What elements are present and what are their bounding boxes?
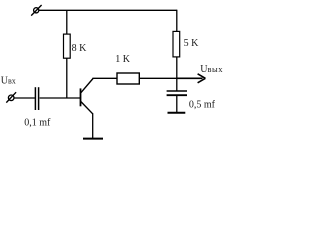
- svg-text:Uвх: Uвх: [1, 76, 16, 87]
- transistor Q1: [81, 79, 94, 114]
- wire: input terminal to C1: [14, 97, 35, 99]
- wire: C1 to base: [40, 97, 80, 99]
- wire: rail down to R2 top: [176, 10, 178, 32]
- resistor R3 (1 K): [117, 73, 139, 84]
- svg-text:Uвых: Uвых: [200, 64, 223, 75]
- resistor R2 (5 K): [173, 31, 180, 57]
- wire: collector to R3: [92, 77, 117, 79]
- capacitor C1 (0,1 mf): [35, 87, 38, 110]
- wire: R1 bottom to base node: [66, 58, 68, 98]
- wire: C2 to right ground: [176, 96, 178, 112]
- resistor R1 (8 K): [64, 34, 71, 58]
- wire: output arrow: [177, 74, 206, 83]
- wire: top supply rail: [39, 9, 177, 11]
- svg-text:0,5 mf: 0,5 mf: [189, 99, 216, 110]
- wire: R3 to output node: [139, 77, 177, 79]
- terminal T2 (signal input): [6, 92, 16, 102]
- wire: output node down to C2: [176, 78, 178, 91]
- ground (emitter): [83, 138, 103, 140]
- wire: emitter down to ground: [92, 113, 94, 138]
- svg-text:0,1 mf: 0,1 mf: [24, 118, 51, 129]
- wire: R2 bottom to output node: [176, 57, 178, 78]
- svg-text:8 K: 8 K: [72, 43, 88, 54]
- wire: rail down to R1 top: [66, 10, 68, 34]
- svg-text:5 K: 5 K: [184, 38, 200, 49]
- ground (right, below C2): [168, 112, 186, 114]
- svg-text:1 K: 1 K: [115, 54, 131, 65]
- capacitor C2 (0,5 mf): [167, 91, 187, 95]
- terminal T1 (supply input, top left): [31, 5, 41, 16]
